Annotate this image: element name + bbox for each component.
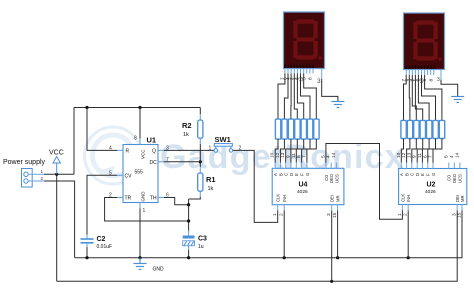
node junction dot TR — [187, 219, 190, 222]
7-segment display DS1 — [284, 12, 325, 69]
pin numbers DS2 — [401, 78, 435, 84]
wires comb2 to U2 pins — [401, 139, 403, 163]
svg-text:1: 1 — [272, 213, 278, 216]
svg-text:MR: MR — [336, 195, 341, 202]
svg-text:GND: GND — [153, 267, 165, 273]
wire U4 INH to gnd — [283, 211, 285, 258]
svg-text:R1: R1 — [206, 175, 216, 184]
wire DS1 seg E — [297, 74, 303, 120]
svg-text:UCS: UCS — [458, 174, 463, 183]
svg-text:CLK: CLK — [276, 194, 281, 202]
resistor network comb 1 — [275, 119, 319, 139]
svg-text:15: 15 — [457, 212, 463, 218]
svg-text:13: 13 — [280, 152, 286, 158]
svg-text:8: 8 — [134, 136, 137, 142]
svg-text:Q: Q — [152, 149, 156, 155]
svg-text:4026: 4026 — [425, 189, 436, 195]
wire DC pin7 — [164, 161, 200, 163]
wire VCC bottom rail — [57, 211, 458, 282]
svg-text:DEI: DEI — [330, 195, 335, 202]
svg-text:R2: R2 — [182, 121, 192, 130]
svg-text:VCC: VCC — [141, 149, 146, 159]
svg-text:B: B — [278, 173, 283, 176]
wire DS2 common to ground — [441, 80, 458, 97]
wire TH pin6 — [164, 198, 189, 205]
svg-text:14: 14 — [454, 152, 460, 158]
ground symbol main — [134, 258, 147, 270]
node junction dot TH — [187, 203, 190, 206]
wire DS2 seg G — [425, 75, 442, 120]
svg-text:INH: INH — [406, 195, 411, 202]
wire DS1 common to ground — [322, 79, 338, 102]
svg-text:F: F — [300, 173, 305, 176]
node dot on VCC bottom rail (U4 DEI) — [330, 280, 333, 283]
svg-text:3: 3 — [317, 78, 321, 85]
svg-text:DEO: DEO — [452, 173, 457, 183]
wires comb1 to U4 pins — [275, 139, 278, 162]
svg-text:DC: DC — [150, 160, 158, 166]
pin numbers U4 — [270, 152, 338, 218]
op 555 timer U1 body — [123, 145, 158, 203]
wire U4 MR to gnd — [337, 211, 339, 258]
counter U4 body — [272, 168, 344, 204]
wire 555 pin8 to rail — [139, 108, 141, 139]
svg-text:10: 10 — [270, 152, 276, 158]
svg-text:SW1: SW1 — [215, 135, 231, 144]
svg-text:12: 12 — [275, 152, 281, 158]
svg-text:5: 5 — [301, 77, 307, 80]
wire Q pin3 to SW1 — [164, 149, 214, 151]
svg-text:12: 12 — [401, 152, 407, 158]
display DS1 pin seats — [285, 65, 313, 69]
svg-text:11: 11 — [291, 153, 297, 158]
wire DS1 seg F — [301, 74, 311, 120]
wire DS1 seg B — [284, 74, 288, 120]
wire DS2 seg A — [404, 75, 407, 120]
wire DS2 seg E — [418, 75, 429, 120]
svg-text:C: C — [410, 173, 415, 176]
svg-text:8: 8 — [428, 79, 434, 82]
pin stubs U2 top — [401, 163, 462, 211]
pin numbers DS1 — [280, 76, 314, 82]
svg-text:A: A — [399, 173, 404, 176]
svg-text:CLK: CLK — [400, 194, 405, 202]
wire SW1 pin2 to U4 CLK — [233, 150, 278, 222]
wire DS1 seg D — [294, 74, 297, 120]
svg-text:14: 14 — [331, 152, 337, 158]
svg-text:U4: U4 — [299, 182, 308, 189]
svg-text:1k: 1k — [183, 132, 189, 138]
svg-text:U1: U1 — [147, 136, 157, 145]
pin stubs DS1 — [285, 69, 322, 80]
capacitor C3 polarized — [183, 231, 195, 258]
wire TH-TR-C3 vertical node — [188, 199, 190, 231]
svg-text:5: 5 — [443, 155, 449, 158]
watermark logo ring — [85, 127, 142, 184]
wire U2 INH to gnd — [407, 211, 409, 258]
VCC power symbol — [53, 157, 60, 175]
wire DS1 seg C — [290, 74, 292, 120]
svg-text:D: D — [289, 173, 294, 176]
svg-text:CO: CO — [324, 174, 329, 181]
node junction dot rail-R pin — [85, 106, 88, 109]
svg-text:13: 13 — [406, 152, 412, 158]
svg-text:9: 9 — [285, 155, 291, 158]
wire DS1 seg A — [278, 74, 285, 120]
svg-text:MR: MR — [460, 195, 465, 202]
wire CV pin5 to C2 — [87, 175, 117, 234]
svg-text:1: 1 — [143, 208, 146, 214]
svg-text:G: G — [431, 173, 436, 176]
node junction dot rail-555 vcc — [138, 106, 141, 109]
svg-text:6: 6 — [296, 155, 302, 158]
svg-text:1u: 1u — [198, 244, 204, 250]
wire VCC top rail — [74, 107, 200, 109]
wire DS2 seg D — [415, 75, 422, 120]
node dots on GND rail — [85, 256, 88, 259]
wire power pin2 — [44, 181, 75, 258]
wire DS1 seg G — [304, 74, 317, 120]
svg-text:U2: U2 — [427, 182, 436, 189]
power supply connector J1 — [22, 169, 45, 188]
node junction dot VCC supply — [55, 173, 58, 176]
wire DS2 seg C — [412, 75, 416, 120]
ground symbol DS1 — [331, 102, 344, 108]
capacitor C2 — [81, 235, 94, 258]
svg-text:DEO: DEO — [329, 173, 334, 183]
resistor R1 — [189, 162, 203, 199]
svg-text:1: 1 — [397, 213, 403, 216]
wire R pin4 — [87, 108, 117, 151]
svg-text:7: 7 — [301, 155, 307, 158]
svg-text:GND: GND — [141, 191, 146, 202]
svg-text:4: 4 — [449, 155, 455, 158]
svg-text:11: 11 — [417, 153, 423, 158]
svg-text:TH: TH — [150, 196, 157, 202]
wire DS2 seg F — [422, 75, 436, 120]
svg-text:7: 7 — [428, 155, 434, 158]
switch SW1 — [214, 144, 233, 153]
display DS2 pin seats — [406, 66, 434, 70]
svg-text:9: 9 — [412, 155, 418, 158]
svg-text:4: 4 — [326, 155, 332, 158]
svg-text:8: 8 — [307, 77, 313, 80]
node junction dot DC-R1-R2 — [199, 160, 202, 163]
svg-text:INH: INH — [282, 195, 287, 202]
wire TR pin2 loop — [105, 198, 189, 222]
7-segment display DS2 — [404, 13, 445, 70]
wire U4 DEI to vcc rail — [331, 211, 333, 282]
pin numbers 555 — [109, 136, 169, 215]
svg-text:G: G — [305, 173, 310, 176]
wire 555 pin1 to gnd rail — [139, 209, 141, 258]
wire DS2 seg B — [408, 75, 411, 120]
wire vertical x74 to VCC junction — [73, 108, 75, 175]
resistor network comb 2 — [401, 120, 445, 138]
pin stubs DS2 — [406, 70, 441, 80]
svg-text:VCC: VCC — [49, 150, 64, 157]
svg-text:1: 1 — [209, 146, 212, 152]
svg-text:4026: 4026 — [297, 189, 308, 195]
svg-text:1k: 1k — [208, 186, 214, 192]
svg-text:CV: CV — [125, 174, 133, 180]
counter U2 body — [399, 169, 467, 205]
svg-text:UCS: UCS — [334, 174, 339, 183]
svg-text:CO: CO — [447, 174, 452, 181]
wire VCC junction down left vertical — [56, 174, 58, 281]
wire U4 CO to U2 CLK — [326, 144, 403, 220]
pin stubs 555 — [117, 139, 164, 209]
svg-text:555: 555 — [135, 170, 144, 176]
svg-text:R: R — [126, 149, 130, 155]
pin numbers U2 — [396, 152, 463, 218]
svg-text:6: 6 — [422, 155, 428, 158]
svg-text:A: A — [273, 173, 278, 176]
svg-text:E: E — [294, 173, 299, 176]
svg-text:Power supply: Power supply — [3, 159, 46, 166]
resistor R2 — [198, 114, 203, 162]
ground symbol DS2 — [451, 97, 464, 103]
wire GND rail — [75, 211, 462, 258]
svg-text:10: 10 — [396, 152, 402, 158]
svg-text:3: 3 — [437, 77, 440, 83]
svg-text:C3: C3 — [198, 236, 207, 243]
wire power pin1 to VCC junction — [44, 173, 74, 175]
svg-text:5: 5 — [422, 79, 428, 82]
wire VCC rail drop to R2 — [199, 108, 201, 115]
svg-text:E: E — [420, 173, 425, 176]
svg-text:TR: TR — [125, 196, 132, 202]
svg-text:C2: C2 — [97, 236, 106, 243]
pin stubs U4 top — [275, 163, 337, 211]
svg-text:0.01uF: 0.01uF — [97, 244, 113, 250]
